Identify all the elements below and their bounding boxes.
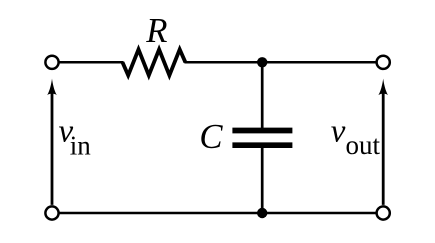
node top junction dot <box>257 57 267 67</box>
wire top (resistor to vout+) <box>184 61 376 64</box>
wire bottom rail <box>59 212 377 215</box>
capacitor C1 bottom plate <box>232 142 292 148</box>
wire top-left (vin+ to resistor) <box>59 61 124 64</box>
resistor R1 zigzag <box>123 49 186 75</box>
svg-text:in: in <box>70 130 92 160</box>
capacitor C1 top plate <box>232 128 292 134</box>
terminal top-right <box>377 56 390 69</box>
terminal top-left <box>45 56 58 69</box>
terminal bottom-left <box>45 206 58 219</box>
vout arrowhead <box>378 79 388 96</box>
wire cap bottom lead <box>261 147 264 214</box>
svg-text:out: out <box>346 130 381 160</box>
svg-text:R: R <box>145 11 167 50</box>
wire vin arrow stem <box>51 92 54 205</box>
wire cap top lead <box>261 62 264 129</box>
svg-text:C: C <box>199 117 223 156</box>
svg-text:v: v <box>331 113 346 149</box>
wire vout arrow stem <box>382 92 385 205</box>
terminal bottom-right <box>377 206 390 219</box>
node bottom junction dot <box>257 208 267 218</box>
vin arrowhead <box>47 79 57 96</box>
